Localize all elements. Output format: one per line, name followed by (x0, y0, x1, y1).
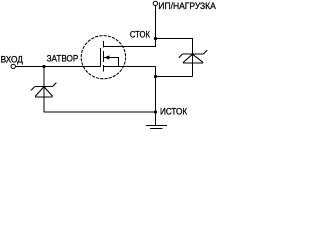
ground bar 2 (150, 128, 163, 130)
zener VD2 bar left bend (179, 54, 183, 58)
zener VD1 bar left bend (31, 87, 35, 91)
MOSFET channel segment (drain) (103, 41, 105, 48)
svg-text:СТОК: СТОК (130, 30, 150, 41)
wire: zener VD2 return to source rail (156, 76, 193, 78)
wire: drain node to zener VD2 (156, 39, 193, 55)
MOSFET channel segment (source) (103, 65, 105, 71)
MOSFET channel segment (middle) (103, 51, 105, 62)
input terminal ВХОД (11, 64, 15, 68)
wire: drain to rail (104, 46, 156, 48)
wire: zener VD2 through lead (192, 39, 194, 77)
node: zener return junction (154, 75, 157, 78)
zener VD1 triangle (35, 87, 53, 97)
wire: source to rail (104, 66, 156, 68)
zener VD1 cathode bar (35, 86, 53, 88)
svg-text:ИСТОК: ИСТОК (160, 107, 187, 118)
svg-text:ИП/НАГРУЗКА: ИП/НАГРУЗКА (158, 1, 216, 12)
MOSFET gate electrode bar (100, 48, 102, 66)
wire: input to gate (15, 66, 100, 68)
wire: source rail down to ground (155, 67, 157, 126)
node СТОК (154, 37, 157, 40)
MOSFET substrate link (104, 58, 119, 67)
wire: supply rail to drain (155, 6, 157, 47)
zener VD2 triangle (183, 54, 203, 62)
ground bar 1 (146, 125, 167, 127)
zener VD2 cathode bar (182, 53, 203, 55)
svg-text:ЗАТВОР: ЗАТВОР (47, 54, 79, 65)
zener VD1 bar right bend (53, 83, 57, 87)
supply terminal ИП/НАГРУЗКА (153, 1, 157, 5)
op: MOSFET body circle (81, 36, 125, 79)
zener VD2 bar right bend (203, 50, 207, 54)
wire: junction down and to source rail (44, 67, 156, 113)
svg-text:ВХОД: ВХОД (1, 54, 24, 65)
node: gate branch junction (42, 65, 45, 68)
MOSFET substrate arrow (104, 55, 109, 59)
node ИСТОК (154, 110, 157, 113)
